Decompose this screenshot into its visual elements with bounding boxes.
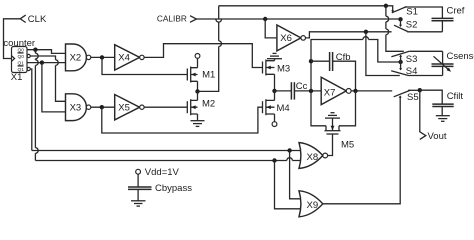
switch S1 (391, 7, 418, 18)
wire X7 input node to S3 S4 pole feed (311, 40, 401, 63)
transistor M3 (263, 59, 291, 76)
ground M2 (191, 121, 205, 127)
node Q0 junction (33, 48, 37, 52)
wire Cbypass to ground (137, 189, 139, 200)
transistor M4 (263, 99, 290, 115)
ground below X6 at M3 drain (flipped) (267, 53, 282, 58)
wire X7 output down to M5 right (339, 91, 356, 126)
wire X2 output (91, 56, 115, 58)
svg-text:Vout: Vout (428, 131, 447, 142)
svg-text:X2: X2 (70, 53, 82, 64)
terminal M1 drain circle (195, 54, 200, 59)
wire Cref bottom to X6 rail (441, 21, 443, 32)
switch S4 (391, 66, 417, 77)
transistor M5 (325, 121, 355, 150)
bubble X6 (301, 36, 306, 41)
node X7 input junction (309, 89, 313, 93)
wire M4 source to terminal (274, 114, 276, 122)
svg-text:Q1: Q1 (18, 67, 25, 73)
inverter X5 (115, 95, 140, 120)
svg-text:S2: S2 (406, 20, 418, 31)
wire Csens bottom stub (442, 66, 444, 75)
pin bubble Q0bar (27, 54, 30, 57)
wire S3 S4 pole stubs (400, 55, 402, 70)
svg-text:Vdd=1V: Vdd=1V (145, 167, 180, 178)
node S5 Cfilt junction (418, 88, 422, 92)
wire X4 output up and right to M3 gate (144, 44, 262, 68)
node Q1 junction (40, 60, 44, 64)
svg-text:Cc: Cc (296, 81, 308, 92)
wire top rail branch down to Csens top rail (386, 6, 443, 52)
svg-text:M5: M5 (341, 139, 354, 150)
inverter X7 (321, 77, 346, 104)
svg-text:S3: S3 (406, 54, 418, 65)
svg-text:M1: M1 (202, 69, 215, 80)
inverter X6 (277, 25, 301, 51)
svg-text:X9: X9 (307, 200, 319, 211)
node X7 output junction (353, 89, 357, 93)
svg-text:Csense: Csense (447, 51, 474, 62)
nand X3 (66, 94, 87, 121)
node CALIBR junction to X6 (263, 17, 267, 21)
node S3 S4 pole junction (398, 60, 402, 64)
capacitor Cfb (330, 52, 351, 71)
svg-text:X8: X8 (307, 152, 319, 163)
wire M2 drain to node (197, 91, 199, 100)
capacitor Cbypass (128, 183, 192, 194)
svg-text:X6: X6 (280, 33, 292, 44)
wire M4 drain to node (274, 91, 276, 101)
wire M2 source to ground (197, 114, 199, 121)
node lower rail junction (272, 158, 276, 162)
pin Q1bar label (18, 66, 25, 73)
inverter X4 (115, 45, 140, 70)
ground M5 bulk (flipped) (325, 113, 340, 121)
svg-text:X5: X5 (118, 103, 130, 114)
svg-text:Cbypass: Cbypass (155, 183, 192, 194)
node upper rail junction (287, 148, 291, 152)
wire lower rail Q0 to X8 input B (35, 160, 301, 162)
transistor M2 (187, 99, 215, 116)
wire CLK to counter clock input (4, 19, 21, 59)
wire Q1bar down to upper NOR rail (30, 69, 32, 151)
wire Cfb left (311, 60, 330, 62)
svg-text:S1: S1 (406, 7, 418, 18)
switch S2 (394, 19, 417, 31)
wire lower rail down to X9 input B (275, 161, 302, 209)
wire S5 right contact to Cfilt node (408, 89, 420, 91)
capacitor Cfilt (432, 91, 463, 107)
svg-text:counter: counter (3, 38, 35, 49)
wire Cfilt node right (420, 90, 442, 104)
wire M5 gate from X8 output (328, 134, 333, 156)
wire M3-M4 node to Cc (275, 90, 292, 92)
svg-text:Q0: Q0 (18, 54, 25, 60)
wire Q0 down to lower rail (34, 50, 36, 161)
wire X2 output down to M1 gate (102, 57, 187, 74)
terminal M4 source circle (272, 122, 277, 127)
bubble X4 (140, 55, 144, 59)
svg-text:S4: S4 (406, 66, 418, 77)
wire CALIBR rail (197, 18, 401, 20)
wire Vout drop (419, 90, 421, 132)
svg-text:X4: X4 (118, 53, 130, 64)
switch S5 (394, 90, 419, 103)
node CALIBR to S2 (398, 17, 402, 21)
bubble X5 (140, 105, 144, 109)
node M1-M2 junction (195, 89, 199, 93)
wire X5 output to M2 gate (144, 106, 187, 108)
svg-text:M3: M3 (277, 64, 290, 75)
svg-text:M2: M2 (202, 99, 215, 110)
or X9 (299, 191, 323, 217)
wire Cref top rail (405, 7, 443, 18)
wire Cfilt to ground (441, 107, 443, 116)
node X2 output junction (100, 55, 104, 59)
bubble X7 (346, 89, 351, 94)
wire M3 source to node (274, 74, 276, 91)
ground Cbypass (131, 201, 146, 206)
wire X7 input down to M5 left (311, 91, 326, 126)
svg-text:X1: X1 (11, 72, 23, 83)
svg-text:Cref: Cref (447, 5, 465, 16)
counter X1 (3, 38, 35, 83)
wire Vdd to Cbypass (137, 174, 139, 187)
node X6 rail junction (364, 30, 368, 34)
svg-text:Cfilt: Cfilt (447, 91, 464, 102)
capacitor Cc (291, 81, 307, 100)
wire X7 input up to Cfb left (310, 61, 312, 91)
wire X6 output rail to Cref bottom (306, 32, 443, 38)
nand X2 (66, 44, 87, 71)
bubble X8 (323, 153, 328, 158)
node CLK port (20, 14, 47, 25)
node CALIBR port (157, 13, 197, 23)
wire Cfb right to X7 output (333, 61, 356, 91)
switch S3 (391, 51, 417, 65)
wire X7 output (351, 90, 392, 92)
svg-text:X3: X3 (70, 103, 82, 114)
node top rail junction (384, 4, 388, 8)
wire Q0 to X2 input A (27, 50, 66, 54)
wire Q1 down to X3 input B (42, 63, 66, 112)
wire Q0bar to X3 input A (30, 56, 65, 101)
node M3-M4 junction (272, 89, 276, 93)
wire Csens top stub (442, 51, 444, 64)
wire M1-M2 node right and up to top rail (198, 6, 219, 92)
svg-text:X7: X7 (324, 87, 336, 98)
wire X6 rail down to Csens bottom rail (366, 32, 443, 76)
terminal Vdd (136, 167, 180, 178)
node Vout port (420, 131, 447, 142)
wire X3 output (91, 106, 115, 108)
wire top rail from M1-M2 node to S1 (219, 6, 393, 12)
capacitor Csens (432, 51, 474, 72)
svg-text:S5: S5 (407, 92, 419, 103)
svg-text:M4: M4 (277, 103, 290, 114)
wire M1 source to node (197, 81, 199, 91)
transistor M1 (187, 58, 215, 82)
ground Cfilt (436, 116, 450, 122)
node Cfb left junction (309, 59, 313, 63)
bubble X2 (86, 55, 90, 59)
wire Cc to X7 input (294, 90, 321, 92)
svg-text:CLK: CLK (28, 14, 47, 25)
pin Q0bar label (18, 53, 25, 60)
capacitor Cref (432, 5, 465, 20)
wire upper rail Q1bar to X8 input A (32, 150, 301, 152)
pin bubble Q1bar (27, 67, 30, 70)
bubble X3 (86, 105, 90, 109)
nor X8 (299, 143, 323, 169)
svg-text:CALIBR: CALIBR (157, 13, 187, 23)
wire upper rail down to X9 input A (290, 151, 302, 199)
node X3 output junction (100, 105, 104, 109)
wire Q1 to X2 input B (27, 62, 66, 64)
wire X6 input from CALIBR (265, 19, 277, 38)
wire X9 output to S5 pole (323, 97, 400, 204)
wire X3 output down and right to M4 gate (102, 107, 263, 133)
